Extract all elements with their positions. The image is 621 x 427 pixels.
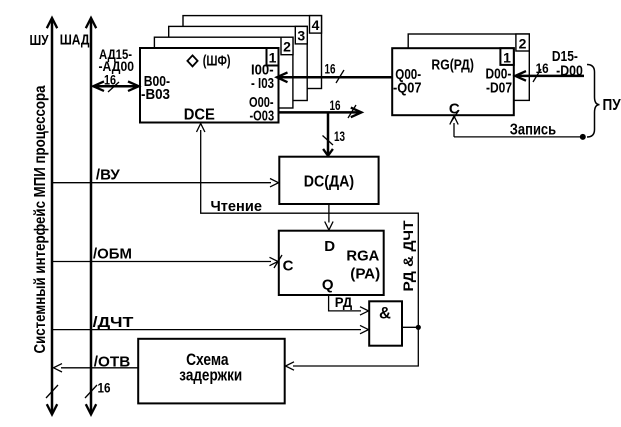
svg-text:2: 2	[519, 36, 527, 52]
svg-text:ШАД: ШАД	[60, 32, 90, 49]
svg-text:Запись: Запись	[510, 122, 556, 139]
svg-text:3: 3	[297, 28, 305, 44]
svg-text:/ДЧТ: /ДЧТ	[93, 314, 134, 331]
svg-text:задержки: задержки	[179, 366, 242, 385]
svg-text:/ОТВ: /ОТВ	[94, 353, 131, 370]
svg-text:/ВУ: /ВУ	[96, 167, 121, 184]
svg-text:С: С	[449, 101, 460, 118]
svg-text:D: D	[324, 238, 335, 255]
svg-text:Чтение: Чтение	[211, 198, 263, 215]
svg-text:16: 16	[104, 72, 116, 88]
svg-text:RGA: RGA	[346, 248, 379, 265]
svg-text:-D07: -D07	[486, 80, 512, 97]
svg-text:13: 13	[334, 128, 345, 144]
svg-text:1: 1	[269, 50, 277, 66]
svg-text:DC(ДА): DC(ДА)	[304, 174, 354, 191]
svg-text:16: 16	[98, 380, 111, 396]
svg-text:Q: Q	[322, 277, 334, 294]
svg-text:ШУ: ШУ	[30, 32, 50, 49]
svg-text:16: 16	[536, 60, 549, 76]
svg-text:РД: РД	[335, 294, 352, 310]
svg-text:-В03: -В03	[141, 86, 170, 103]
svg-text:(РА): (РА)	[350, 266, 380, 283]
svg-text:2: 2	[283, 39, 291, 55]
svg-text:4: 4	[312, 17, 320, 33]
svg-text:16: 16	[330, 97, 341, 113]
svg-text:/ОБМ: /ОБМ	[93, 246, 132, 263]
svg-text:-Q07: -Q07	[393, 80, 422, 97]
svg-text:ПУ: ПУ	[603, 97, 621, 114]
svg-text:РД & ДЧТ: РД & ДЧТ	[400, 220, 416, 291]
svg-text:RG(РД): RG(РД)	[431, 57, 474, 74]
svg-text:&: &	[379, 305, 391, 323]
svg-text:16: 16	[325, 61, 336, 77]
svg-text:-D00: -D00	[556, 64, 583, 80]
svg-text:1: 1	[503, 50, 511, 66]
svg-text:DCE: DCE	[184, 107, 215, 124]
svg-text:Системный интерфейс МПИ процес: Системный интерфейс МПИ процессора	[32, 85, 49, 353]
svg-text:- I03: - I03	[251, 75, 274, 92]
svg-text:-О03: -О03	[250, 108, 275, 125]
svg-text:(ШФ): (ШФ)	[203, 54, 231, 70]
svg-text:С: С	[283, 257, 294, 274]
